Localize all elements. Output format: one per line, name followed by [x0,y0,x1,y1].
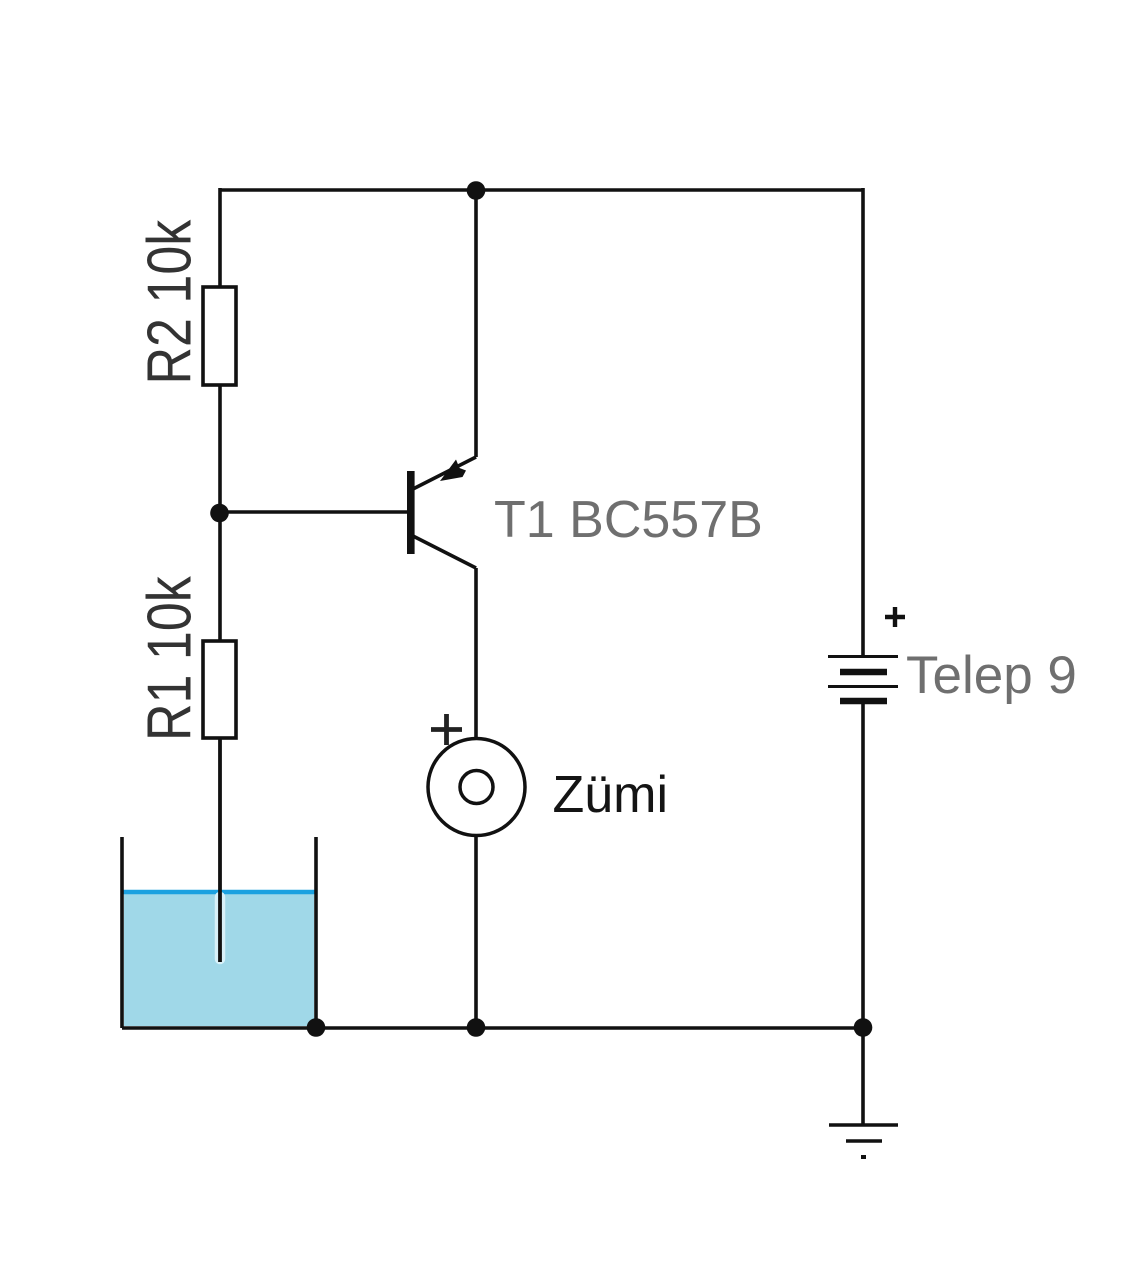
svg-text:R1 10k: R1 10k [135,576,205,741]
svg-text:Zümi: Zümi [553,766,669,824]
svg-text:R2 10k: R2 10k [135,220,205,385]
svg-text:T1 BC557B: T1 BC557B [494,491,763,549]
svg-text:Telep 9: Telep 9 [906,646,1077,705]
